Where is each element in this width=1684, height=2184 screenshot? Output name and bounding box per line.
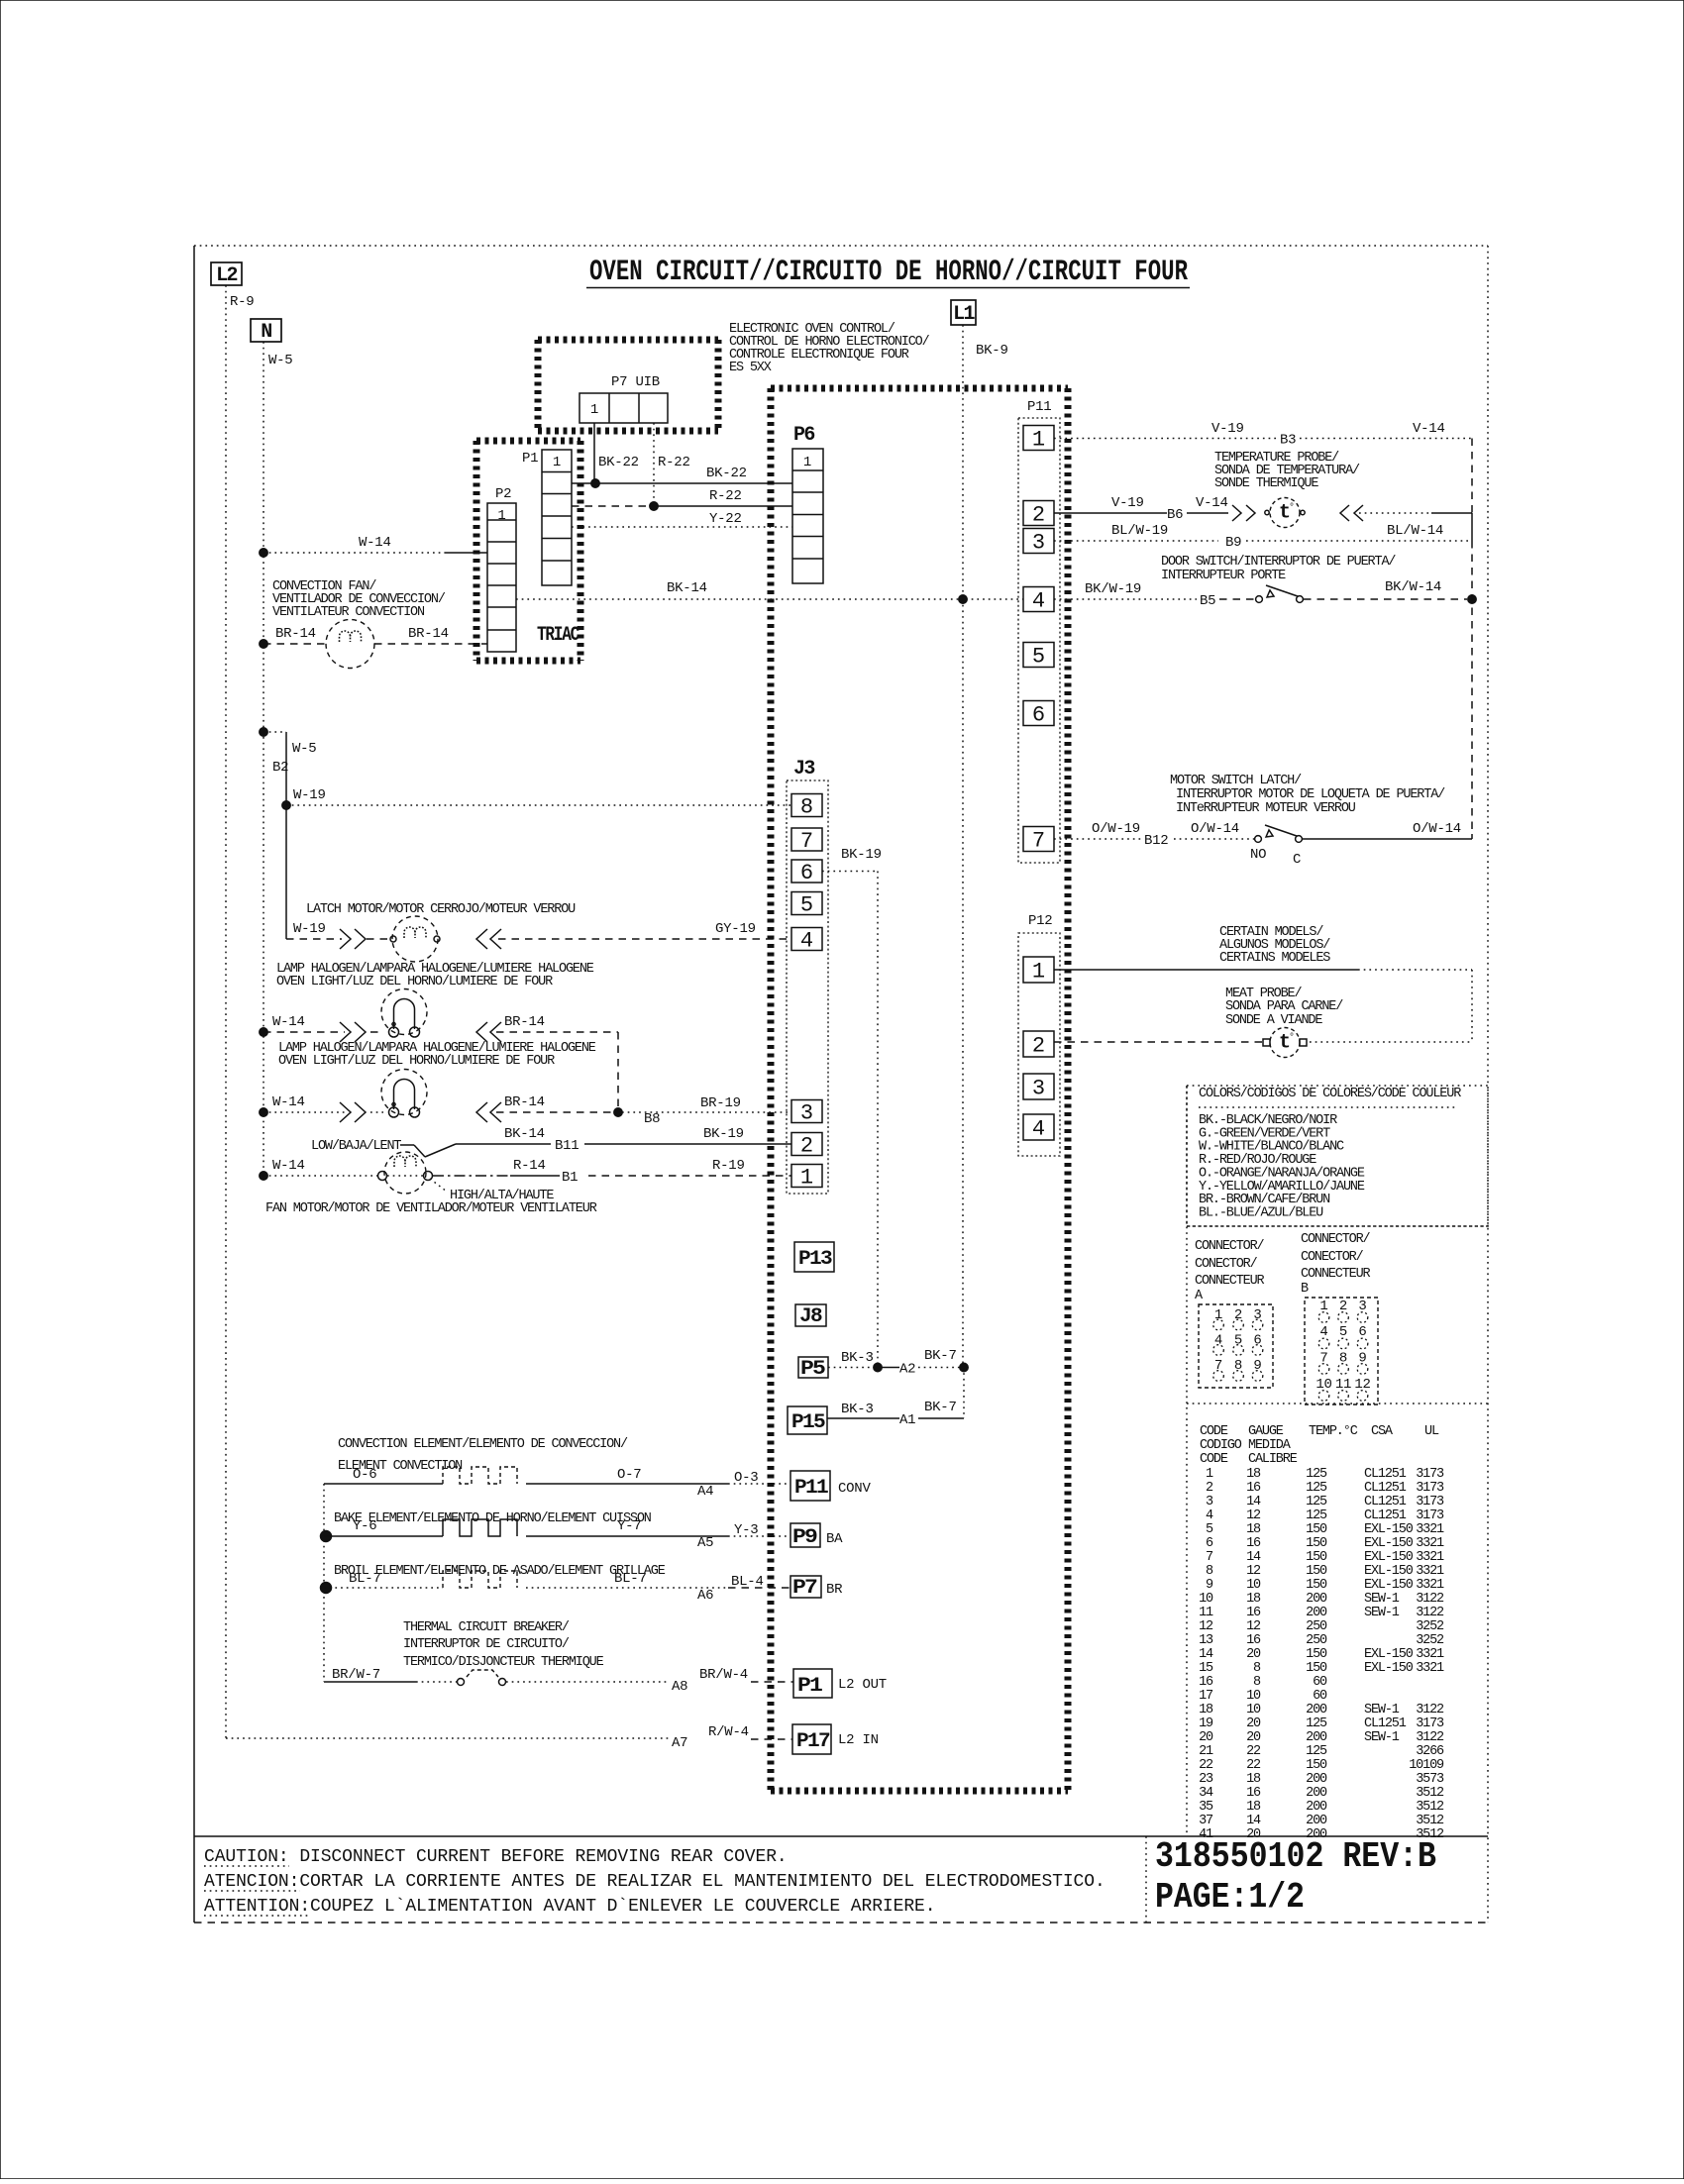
wire BR-14 lamp1 to junction — [617, 1032, 619, 1112]
svg-text:21: 21 — [1199, 1744, 1213, 1759]
svg-text:C: C — [1293, 852, 1301, 868]
svg-text:B6: B6 — [1167, 507, 1183, 523]
svg-text:CL1251: CL1251 — [1364, 1508, 1407, 1523]
svg-text:16: 16 — [1246, 1606, 1261, 1620]
svg-text:CONNECTEUR: CONNECTEUR — [1195, 1274, 1265, 1289]
svg-text:EXL-150: EXL-150 — [1364, 1647, 1414, 1662]
svg-text:R-19: R-19 — [712, 1158, 745, 1174]
svg-text:3321: 3321 — [1416, 1578, 1444, 1593]
svg-text:8: 8 — [1253, 1675, 1261, 1690]
right panel divider — [1187, 1225, 1488, 1227]
svg-text:150: 150 — [1306, 1758, 1327, 1773]
svg-text:J3: J3 — [793, 758, 814, 780]
svg-text:4: 4 — [1032, 1117, 1045, 1142]
svg-text:P13: P13 — [798, 1248, 832, 1271]
svg-text:CERTAINS MODELES: CERTAINS MODELES — [1219, 951, 1330, 966]
P11 pin 3 — [1023, 529, 1054, 554]
svg-text:BR-14: BR-14 — [408, 626, 449, 642]
svg-text:6: 6 — [1206, 1536, 1213, 1551]
svg-text:EXL-150: EXL-150 — [1364, 1536, 1414, 1551]
svg-text:R-22: R-22 — [658, 455, 690, 470]
svg-text:O-6: O-6 — [353, 1467, 376, 1483]
svg-text:18: 18 — [1246, 1800, 1261, 1815]
svg-text:CSA: CSA — [1371, 1424, 1394, 1439]
J3 pin 5 — [791, 892, 822, 915]
svg-text:1: 1 — [553, 455, 561, 470]
svg-text:20: 20 — [1246, 1730, 1261, 1745]
svg-text:15: 15 — [1199, 1661, 1213, 1676]
wire V-19 B3 V-14 — [1054, 438, 1278, 440]
svg-text:LATCH MOTOR/MOTOR CERROJO/MOTE: LATCH MOTOR/MOTOR CERROJO/MOTEUR VERROU — [306, 902, 576, 917]
svg-text:P7 UIB: P7 UIB — [611, 374, 660, 390]
svg-text:BK-22: BK-22 — [598, 455, 639, 470]
svg-text:3252: 3252 — [1416, 1619, 1444, 1634]
svg-text:J8: J8 — [799, 1305, 822, 1328]
svg-text:3321: 3321 — [1416, 1661, 1444, 1676]
svg-text:3266: 3266 — [1416, 1744, 1444, 1759]
lamp DS2 oven light — [260, 1108, 267, 1116]
svg-text:W-19: W-19 — [293, 787, 326, 803]
svg-text:W-19: W-19 — [293, 921, 326, 937]
wire BK-9 from L1 — [962, 325, 964, 599]
svg-text:B12: B12 — [1144, 833, 1168, 849]
svg-text:B11: B11 — [555, 1138, 579, 1154]
svg-text:3122: 3122 — [1416, 1703, 1444, 1717]
svg-text:3173: 3173 — [1416, 1716, 1444, 1731]
svg-text:A2: A2 — [899, 1362, 915, 1378]
svg-text:P1: P1 — [797, 1675, 823, 1698]
wire BK-9 continues to BK-7 junction — [962, 599, 964, 1367]
svg-text:P7: P7 — [792, 1577, 817, 1600]
J3 pin 2 — [791, 1133, 822, 1156]
svg-text:3173: 3173 — [1416, 1508, 1444, 1523]
svg-text:CONECTOR/: CONECTOR/ — [1195, 1257, 1258, 1272]
wire BK-19 from J3 pin 6 — [822, 871, 878, 873]
svg-text:P5: P5 — [800, 1358, 825, 1381]
svg-text:1: 1 — [1032, 960, 1045, 985]
wire R-14 high tap — [433, 1175, 510, 1177]
svg-text:10: 10 — [1246, 1578, 1261, 1593]
svg-text:6: 6 — [1032, 703, 1045, 728]
connector B pin diagram — [1305, 1298, 1378, 1404]
svg-text:150: 150 — [1306, 1647, 1327, 1662]
svg-text:B5: B5 — [1200, 593, 1215, 609]
svg-text:R/W-4: R/W-4 — [708, 1724, 749, 1740]
wire meat probe pin1 — [1054, 969, 1358, 971]
svg-text:8: 8 — [1206, 1564, 1213, 1579]
svg-text:O/W-14: O/W-14 — [1413, 821, 1461, 837]
junction on right rail — [1468, 595, 1476, 603]
svg-text:3: 3 — [1032, 531, 1045, 556]
P11 pin 6 — [1023, 701, 1054, 726]
connector P17 L2 IN — [792, 1724, 831, 1754]
svg-text:SONDE A VIANDE: SONDE A VIANDE — [1225, 1013, 1322, 1028]
svg-text:EXL-150: EXL-150 — [1364, 1564, 1414, 1579]
svg-text:A5: A5 — [697, 1535, 713, 1551]
svg-text:V-19: V-19 — [1111, 495, 1144, 511]
svg-text:16: 16 — [1246, 1536, 1261, 1551]
svg-text:L2 OUT: L2 OUT — [838, 1677, 887, 1693]
svg-text:2: 2 — [800, 1134, 813, 1159]
svg-text:B1: B1 — [562, 1170, 578, 1186]
node L1 — [951, 300, 976, 325]
svg-text:A7: A7 — [672, 1735, 687, 1751]
svg-text:EXL-150: EXL-150 — [1364, 1661, 1414, 1676]
P11 pin 2 — [1023, 501, 1054, 526]
svg-text:BK-14: BK-14 — [504, 1126, 545, 1142]
svg-text:A6: A6 — [697, 1588, 713, 1604]
svg-text:16: 16 — [1246, 1786, 1261, 1801]
svg-text:P1: P1 — [522, 451, 538, 467]
svg-text:4: 4 — [1032, 589, 1045, 614]
P12 pin 2 — [1023, 1031, 1054, 1057]
wire BK-3 A2 BK-7 — [828, 1367, 876, 1369]
svg-text:20: 20 — [1246, 1716, 1261, 1731]
svg-text:18: 18 — [1246, 1592, 1261, 1607]
svg-text:CONV: CONV — [838, 1481, 871, 1497]
temperature probe B6 circuit — [1054, 512, 1167, 514]
svg-text:2: 2 — [1032, 503, 1045, 528]
svg-text:OVEN LIGHT/LUZ DEL HORNO/LUMIE: OVEN LIGHT/LUZ DEL HORNO/LUMIERE DE FOUR — [276, 975, 553, 989]
wire BR-19 B8 to J3 pin 3 — [622, 1111, 791, 1113]
svg-text:CAUTION: DISCONNECT CURRENT BE: CAUTION: DISCONNECT CURRENT BEFORE REMOV… — [204, 1847, 788, 1867]
svg-text:°: ° — [1289, 502, 1295, 514]
wire BK-19 B11 to J3 pin 2 — [584, 1143, 791, 1145]
page frame — [193, 246, 195, 1923]
svg-text:9: 9 — [1253, 1358, 1261, 1374]
svg-text:3122: 3122 — [1416, 1730, 1444, 1745]
svg-text:CL1251: CL1251 — [1364, 1716, 1407, 1731]
svg-text:BK-9: BK-9 — [976, 343, 1008, 359]
wire R-19 B1 to J3 pin 1 — [588, 1175, 791, 1177]
svg-text:10: 10 — [1199, 1592, 1213, 1607]
svg-text:3573: 3573 — [1416, 1772, 1444, 1787]
wire BK-3 A1 BK-7 to P15 — [827, 1417, 899, 1419]
svg-text:5: 5 — [1206, 1522, 1213, 1537]
wire W-14 to P2 — [260, 549, 267, 557]
svg-text:ATENCION:CORTAR LA CORRIENTE A: ATENCION:CORTAR LA CORRIENTE ANTES DE RE… — [204, 1872, 1105, 1892]
TRIAC block outline — [476, 438, 580, 445]
svg-text:BK-7: BK-7 — [924, 1400, 957, 1415]
wire R-22 — [572, 505, 654, 507]
svg-text:10: 10 — [1246, 1703, 1261, 1717]
svg-text:3: 3 — [800, 1101, 813, 1126]
svg-text:MEDIDA: MEDIDA — [1248, 1438, 1292, 1453]
svg-text:P11: P11 — [794, 1477, 829, 1500]
svg-text:CONECTOR/: CONECTOR/ — [1301, 1250, 1364, 1265]
svg-text:3: 3 — [1032, 1077, 1045, 1101]
svg-text:Y-22: Y-22 — [709, 511, 742, 527]
svg-text:200: 200 — [1306, 1772, 1327, 1787]
svg-text:L2: L2 — [216, 264, 237, 287]
svg-text:125: 125 — [1306, 1716, 1327, 1731]
svg-text:P12: P12 — [1028, 913, 1052, 929]
connector A pin diagram — [1199, 1304, 1273, 1388]
svg-text:20: 20 — [1246, 1647, 1261, 1662]
svg-text:SONDE THERMIQUE: SONDE THERMIQUE — [1214, 476, 1318, 491]
wire O/W-19 B12 — [1054, 838, 1144, 840]
J3 pin 8 — [791, 794, 822, 817]
svg-text:150: 150 — [1306, 1536, 1327, 1551]
svg-text:1: 1 — [800, 1166, 813, 1191]
svg-text:3321: 3321 — [1416, 1550, 1444, 1565]
svg-text:CONVECTION ELEMENT/ELEMENTO DE: CONVECTION ELEMENT/ELEMENTO DE CONVECCIO… — [338, 1437, 628, 1452]
svg-text:A1: A1 — [899, 1412, 915, 1428]
svg-text:17: 17 — [1199, 1689, 1213, 1704]
J3 pin 3 — [791, 1100, 822, 1123]
svg-text:TRIAC: TRIAC — [537, 624, 579, 647]
connector P7 BR — [790, 1576, 821, 1598]
svg-text:22: 22 — [1246, 1758, 1261, 1773]
svg-text:CONNECTEUR: CONNECTEUR — [1301, 1267, 1371, 1282]
svg-text:1: 1 — [1206, 1467, 1213, 1482]
convection element R1 — [324, 1483, 443, 1485]
svg-text:16: 16 — [1246, 1481, 1261, 1496]
P11 pin 5 — [1023, 643, 1054, 668]
svg-text:UL: UL — [1424, 1424, 1439, 1439]
J3 pin 4 — [791, 928, 822, 951]
svg-text:BK-22: BK-22 — [706, 466, 747, 481]
svg-text:W-5: W-5 — [268, 353, 292, 368]
svg-text:16: 16 — [1246, 1633, 1261, 1648]
wire V-14 drop — [1471, 439, 1473, 514]
motor M3 fan — [260, 1172, 267, 1180]
svg-text:W-5: W-5 — [292, 741, 316, 757]
svg-text:250: 250 — [1306, 1619, 1327, 1634]
svg-text:200: 200 — [1306, 1786, 1327, 1801]
title block divider — [1145, 1836, 1147, 1923]
svg-text:W-14: W-14 — [359, 535, 391, 551]
svg-text:SEW-1: SEW-1 — [1364, 1606, 1400, 1620]
svg-text:6: 6 — [800, 861, 813, 885]
temperature probe RT1 — [1270, 498, 1300, 528]
svg-text:BR/W-7: BR/W-7 — [332, 1667, 380, 1683]
svg-text:BA: BA — [826, 1531, 843, 1547]
svg-text:200: 200 — [1306, 1703, 1327, 1717]
svg-text:7: 7 — [1032, 829, 1045, 854]
svg-text:1: 1 — [590, 402, 598, 418]
svg-text:COLORS/CODIGOS DE COLORES/CODE: COLORS/CODIGOS DE COLORES/CODE COULEUR — [1199, 1087, 1461, 1101]
svg-text:3122: 3122 — [1416, 1592, 1444, 1607]
svg-text:CODIGO: CODIGO — [1200, 1438, 1242, 1453]
svg-text:125: 125 — [1306, 1744, 1327, 1759]
svg-text:5: 5 — [800, 893, 813, 918]
svg-text:R-14: R-14 — [513, 1158, 546, 1174]
J3 pin 7 — [791, 828, 822, 851]
svg-text:R-22: R-22 — [709, 488, 742, 504]
motor M1 convection fan — [260, 640, 267, 648]
svg-text:V-14: V-14 — [1413, 421, 1445, 437]
svg-text:EXL-150: EXL-150 — [1364, 1578, 1414, 1593]
svg-text:BK-19: BK-19 — [841, 847, 882, 863]
svg-text:BK-19: BK-19 — [703, 1126, 744, 1142]
svg-text:9: 9 — [1206, 1578, 1213, 1593]
svg-text:P6: P6 — [793, 424, 814, 447]
svg-text:8: 8 — [800, 795, 813, 820]
svg-text:35: 35 — [1199, 1800, 1213, 1815]
svg-text:VENTILATEUR CONVECTION: VENTILATEUR CONVECTION — [272, 605, 425, 620]
svg-text:BK-3: BK-3 — [841, 1402, 874, 1417]
svg-text:P11: P11 — [1027, 399, 1051, 415]
svg-text:Y-6: Y-6 — [353, 1518, 376, 1534]
svg-text:CL1251: CL1251 — [1364, 1467, 1407, 1482]
svg-text:19: 19 — [1199, 1716, 1213, 1731]
svg-text:SONDA PARA CARNE/: SONDA PARA CARNE/ — [1225, 999, 1343, 1014]
svg-text:3512: 3512 — [1416, 1800, 1444, 1815]
svg-text:18: 18 — [1246, 1522, 1261, 1537]
J3 pin 1 — [791, 1165, 822, 1188]
svg-text:1: 1 — [803, 455, 811, 470]
svg-text:FAN MOTOR/MOTOR DE VENTILADOR/: FAN MOTOR/MOTOR DE VENTILADOR/MOTEUR VEN… — [265, 1201, 597, 1216]
svg-text:A8: A8 — [672, 1679, 687, 1695]
svg-text:O-7: O-7 — [617, 1467, 641, 1483]
node L2 — [211, 262, 242, 285]
connector P5 — [798, 1357, 828, 1378]
svg-text:INTeRRUPTEUR MOTEUR VERROU: INTeRRUPTEUR MOTEUR VERROU — [1176, 801, 1356, 816]
meat probe RT2 circuit — [1054, 1041, 1263, 1043]
P12 pin 4 — [1023, 1114, 1054, 1140]
svg-text:OVEN CIRCUIT//CIRCUITO DE HORN: OVEN CIRCUIT//CIRCUITO DE HORNO//CIRCUIT… — [589, 256, 1188, 289]
svg-text:BK/W-19: BK/W-19 — [1085, 581, 1141, 597]
svg-text:125: 125 — [1306, 1508, 1327, 1523]
svg-text:A4: A4 — [697, 1484, 713, 1500]
svg-text:150: 150 — [1306, 1522, 1327, 1537]
svg-text:EXL-150: EXL-150 — [1364, 1522, 1414, 1537]
high tap pointer — [430, 1179, 447, 1192]
svg-text:BL.-BLUE/AZUL/BLEU: BL.-BLUE/AZUL/BLEU — [1199, 1205, 1323, 1220]
svg-text:12: 12 — [1246, 1564, 1261, 1579]
svg-text:2: 2 — [1032, 1034, 1045, 1059]
svg-text:13: 13 — [1199, 1633, 1213, 1648]
svg-text:LOW/BAJA/LENT: LOW/BAJA/LENT — [311, 1139, 401, 1154]
svg-text:4: 4 — [1206, 1508, 1213, 1523]
wire BK-22 — [572, 482, 792, 484]
svg-text:SEW-1: SEW-1 — [1364, 1703, 1400, 1717]
svg-text:W-14: W-14 — [272, 1094, 305, 1110]
wire L2 bus R-9 — [225, 285, 227, 1738]
svg-text:°: ° — [1289, 1032, 1295, 1044]
svg-text:34: 34 — [1199, 1786, 1213, 1801]
node B2 branch W-5 — [260, 728, 267, 736]
svg-text:N: N — [261, 321, 271, 344]
svg-text:L2 IN: L2 IN — [838, 1732, 879, 1748]
svg-text:L1: L1 — [953, 303, 975, 326]
svg-text:23: 23 — [1199, 1772, 1213, 1787]
node N — [251, 319, 281, 342]
svg-text:OVEN LIGHT/LUZ DEL HORNO/LUMIE: OVEN LIGHT/LUZ DEL HORNO/LUMIERE DE FOUR — [278, 1054, 555, 1069]
svg-text:B2: B2 — [272, 760, 288, 776]
svg-text:GY-19: GY-19 — [715, 921, 756, 937]
svg-text:150: 150 — [1306, 1578, 1327, 1593]
svg-text:BR-14: BR-14 — [275, 626, 316, 642]
svg-text:NO: NO — [1250, 847, 1266, 863]
connector P11 CONV — [790, 1471, 830, 1501]
wire BK/W-19 B5 — [1054, 598, 1197, 600]
svg-text:10109: 10109 — [1409, 1758, 1444, 1773]
bake element R2 — [321, 1531, 332, 1542]
wire Y-22 — [572, 526, 792, 528]
svg-text:Y-7: Y-7 — [617, 1518, 641, 1534]
svg-text:SEW-1: SEW-1 — [1364, 1730, 1400, 1745]
svg-text:BK-3: BK-3 — [841, 1350, 874, 1366]
P11 pin 7 — [1023, 827, 1054, 852]
svg-text:SEW-1: SEW-1 — [1364, 1592, 1400, 1607]
elements feed bus — [323, 1484, 325, 1682]
wire BK-14 to P11 pin4 — [516, 598, 961, 600]
svg-text:18: 18 — [1246, 1467, 1261, 1482]
svg-text:W-14: W-14 — [272, 1014, 305, 1030]
svg-text:3321: 3321 — [1416, 1522, 1444, 1537]
svg-text:CONNECTOR/: CONNECTOR/ — [1195, 1239, 1265, 1254]
svg-text:CODE: CODE — [1200, 1424, 1228, 1439]
svg-text:3173: 3173 — [1416, 1481, 1444, 1496]
wire O/W-14 right — [1303, 838, 1472, 840]
svg-text:8: 8 — [1234, 1358, 1242, 1374]
svg-text:14: 14 — [1246, 1550, 1261, 1565]
svg-text:PAGE:1/2: PAGE:1/2 — [1155, 1877, 1305, 1918]
svg-text:5: 5 — [1032, 645, 1045, 670]
svg-text:O/W-14: O/W-14 — [1191, 821, 1239, 837]
svg-text:3512: 3512 — [1416, 1786, 1444, 1801]
svg-text:BR-14: BR-14 — [504, 1094, 545, 1110]
svg-text:16: 16 — [1199, 1675, 1213, 1690]
wire L2 IN A7 — [226, 1737, 670, 1739]
svg-text:BK-7: BK-7 — [924, 1348, 957, 1364]
svg-text:22: 22 — [1246, 1744, 1261, 1759]
svg-text:ATTENTION:COUPEZ L`ALIMENTATIO: ATTENTION:COUPEZ L`ALIMENTATION AVANT D`… — [204, 1897, 935, 1917]
svg-text:8: 8 — [1253, 1661, 1261, 1676]
svg-text:BL/W-19: BL/W-19 — [1111, 523, 1168, 539]
svg-text:14: 14 — [1246, 1814, 1261, 1828]
svg-text:BL-7: BL-7 — [349, 1571, 381, 1587]
svg-text:P17: P17 — [796, 1730, 830, 1753]
svg-text:B9: B9 — [1225, 535, 1241, 551]
svg-text:12: 12 — [1199, 1619, 1213, 1634]
svg-text:B8: B8 — [644, 1111, 660, 1127]
svg-text:12: 12 — [1246, 1619, 1261, 1634]
svg-text:150: 150 — [1306, 1661, 1327, 1676]
connector P15 — [788, 1406, 827, 1434]
svg-text:R-9: R-9 — [230, 294, 254, 310]
svg-text:37: 37 — [1199, 1814, 1213, 1828]
svg-text:TEMP.°C: TEMP.°C — [1309, 1424, 1358, 1439]
svg-text:150: 150 — [1306, 1564, 1327, 1579]
svg-text:P2: P2 — [495, 486, 511, 502]
svg-text:125: 125 — [1306, 1481, 1327, 1496]
svg-text:BK/W-14: BK/W-14 — [1385, 579, 1441, 595]
door switch S1 — [1256, 596, 1263, 603]
lamp DS1 oven light — [260, 1028, 267, 1036]
P11 pin 1 — [1023, 426, 1054, 451]
svg-text:BAKE ELEMENT/ELEMENTO DE HORNO: BAKE ELEMENT/ELEMENTO DE HORNO/ELEMENT C… — [334, 1511, 652, 1526]
svg-text:MOTOR SWITCH LATCH/: MOTOR SWITCH LATCH/ — [1170, 774, 1302, 788]
P12 pin 1 — [1023, 957, 1054, 983]
svg-text:BL/W-14: BL/W-14 — [1387, 523, 1443, 539]
motor M2 latch — [286, 938, 342, 940]
svg-text:250: 250 — [1306, 1633, 1327, 1648]
svg-text:V-19: V-19 — [1211, 421, 1244, 437]
svg-text:TERMICO/DISJONCTEUR THERMIQUE: TERMICO/DISJONCTEUR THERMIQUE — [403, 1655, 604, 1670]
svg-text:7: 7 — [1214, 1358, 1222, 1374]
svg-text:BL-7: BL-7 — [614, 1571, 647, 1587]
wire R-22 from UIB pin3 — [653, 423, 655, 506]
svg-text:3173: 3173 — [1416, 1467, 1444, 1482]
svg-text:3252: 3252 — [1416, 1633, 1444, 1648]
svg-text:CONNECTOR/: CONNECTOR/ — [1301, 1232, 1371, 1247]
svg-text:BR-14: BR-14 — [504, 1014, 545, 1030]
svg-text:18: 18 — [1246, 1772, 1261, 1787]
svg-text:ES 5XX: ES 5XX — [729, 361, 772, 375]
